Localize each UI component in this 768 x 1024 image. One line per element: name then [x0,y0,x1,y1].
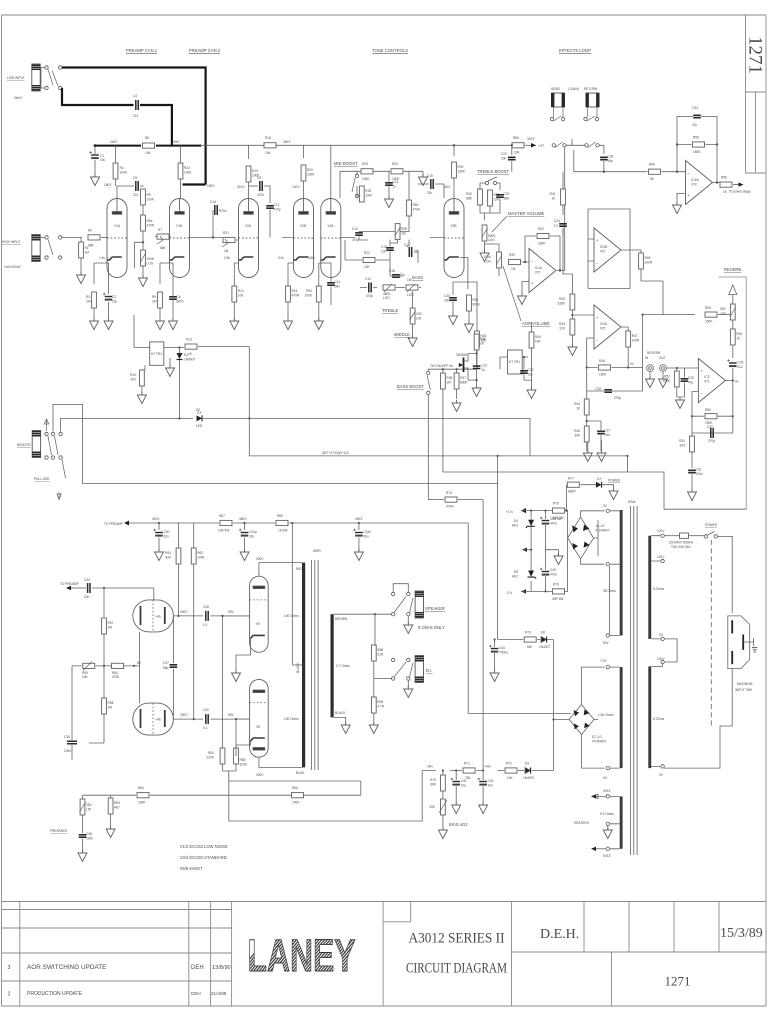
svg-text:LOG: LOG [407,293,414,297]
resistor R69 4R7 [371,697,376,713]
switch SW1a [45,66,48,69]
border left [1,15,3,1006]
capacitor C2 [107,263,109,294]
arrow 0V mid [522,548,527,552]
wire jack to switch [40,68,45,89]
capacitor C13 470p [369,283,371,293]
svg-text:10K: 10K [82,675,89,679]
wire IC2B surround [588,209,641,289]
svg-text:C33: C33 [692,106,698,110]
svg-text:D1: D1 [184,353,188,357]
svg-text:100K: 100K [307,173,315,177]
svg-text:55V: 55V [228,610,235,614]
resistor R74 470R [445,497,457,502]
resistor R76 40R 5W [553,589,565,594]
svg-text:R22: R22 [364,251,370,255]
svg-text:R60: R60 [413,203,419,207]
svg-text:20mV: 20mV [14,96,23,100]
svg-text:8 Ohms ONLY: 8 Ohms ONLY [418,625,445,630]
wire IC1A output up to effects loop [557,147,565,271]
svg-text:V6: V6 [256,725,260,729]
wire bias rail lower [229,771,422,822]
svg-text:C40: C40 [203,708,209,712]
svg-text:D5: D5 [514,570,518,574]
svg-text:SEND: SEND [551,87,561,91]
wire splitter outputs [173,616,249,719]
svg-text:R32: R32 [466,192,472,196]
pot 100K LOG [141,250,146,266]
svg-text:LOG: LOG [484,260,491,264]
capacitor C29 [727,359,736,367]
svg-text:22K: 22K [720,307,727,311]
svg-text:21/4/89: 21/4/89 [211,991,227,996]
speaker switch [392,592,395,595]
svg-text:600R: 600R [313,549,321,553]
svg-text:1M: 1M [108,706,113,710]
svg-text:V3B: V3B [451,224,457,228]
wire jack to grid network [40,236,82,238]
wire IC1B feedback loop [677,117,717,183]
svg-text:260V: 260V [283,140,291,144]
wire tap to lower stage [135,242,144,268]
svg-text:220K: 220K [240,763,248,767]
OT secondary bar [331,614,334,717]
relay HT TR2 [508,350,523,374]
capacitor C27 [597,431,605,433]
TITLE BLOCK [2,902,767,1007]
svg-text:OUT: OUT [659,356,666,360]
svg-text:C13: C13 [365,277,371,281]
wire +17v rail [521,511,568,529]
svg-text:22n: 22n [84,595,90,599]
capacitor C10 470p [355,233,363,235]
svg-text:071: 071 [704,380,710,384]
resistor R41 [561,189,566,205]
svg-text:072: 072 [600,327,606,331]
svg-text:D.I.: D.I. [426,668,433,673]
switch AOR contacts [45,432,48,435]
1271 cell left edge [611,952,613,1006]
svg-text:BROWN: BROWN [335,617,348,621]
ground below pot [142,266,144,277]
capacitor C42 [451,778,460,786]
svg-text:100R: 100R [645,261,653,265]
svg-text:R25: R25 [365,189,371,193]
D.E.H. row divider [512,951,767,953]
svg-text:4K7: 4K7 [114,806,120,810]
wire QET rail link up [248,418,250,456]
svg-text:220K: 220K [207,756,215,760]
svg-text:2K7: 2K7 [86,300,92,304]
DI switch [392,658,395,661]
svg-text:100K: 100K [292,801,300,805]
svg-text:R24: R24 [392,162,398,166]
notch cell [383,902,411,922]
jack SPEAKER [415,591,423,618]
resistor R44 [584,399,589,415]
svg-text:LIN: LIN [721,312,727,316]
svg-text:MIDDLE: MIDDLE [394,332,410,337]
svg-text:PRODUCTION UPDATE: PRODUCTION UPDATE [27,991,83,997]
svg-text:300V: 300V [256,557,264,561]
svg-text:BIAS ADJ.: BIAS ADJ. [449,822,469,827]
svg-text:100K: 100K [120,171,128,175]
svg-text:V1/2 ECC83 LOW NOISE: V1/2 ECC83 LOW NOISE [180,844,228,849]
svg-text:C30: C30 [444,294,450,298]
svg-text:180V: 180V [104,183,112,187]
svg-text:072: 072 [535,271,541,275]
svg-text:10K: 10K [514,151,521,155]
ground relay [169,358,171,367]
svg-text:22K: 22K [416,312,423,316]
svg-text:IC2A: IC2A [600,322,608,326]
wire bass pot to middle pot [396,288,421,309]
svg-text:120V: 120V [657,529,665,533]
wire HT rail power amp [129,522,468,524]
svg-text:4*1N4007: 4*1N4007 [592,740,606,744]
ground IC1A + input [522,282,529,296]
svg-text:10n: 10n [528,373,534,377]
svg-text:470p: 470p [366,294,373,298]
svg-text:R65: R65 [277,514,283,518]
svg-text:C43: C43 [488,779,494,783]
resistor R60 470K [408,171,410,200]
svg-text:R2: R2 [88,229,92,233]
LED D2 [197,415,203,421]
svg-text:1271: 1271 [745,36,766,74]
svg-text:R57: R57 [108,621,114,625]
svg-text:22K: 22K [494,198,501,202]
svg-text:V2A: V2A [245,224,252,228]
wire thick HT rail left [95,145,201,147]
svg-text:IC3: IC3 [704,375,709,379]
svg-text:1M: 1M [511,267,516,271]
resistor R22 10K [363,257,375,262]
svg-text:100n: 100n [86,837,93,841]
svg-text:100n: 100n [64,749,71,753]
wire secondary bottom to ground [334,717,346,724]
svg-text:+HT: +HT [538,144,544,148]
svg-text:1K5: 1K5 [679,444,685,448]
svg-text:R20: R20 [307,168,313,172]
svg-text:68K: 68K [88,244,95,248]
svg-text:47p: 47p [688,381,694,385]
switch contacts return row [552,144,555,147]
svg-text:22u: 22u [112,300,118,304]
svg-text:1M: 1M [85,251,90,255]
svg-text:TREBLE: TREBLE [382,308,398,313]
ground DI [407,681,409,689]
svg-text:3: 3 [8,965,11,971]
svg-text:400V: 400V [355,517,363,521]
svg-text:C41a: C41a [249,530,257,534]
svg-text:150K: 150K [705,320,713,324]
wire R7 to V1B grid [155,236,171,238]
wire AOR bottom rail [83,456,498,640]
resistor R1 [80,237,82,242]
transformer primary bar lower [648,666,651,768]
svg-text:DEH: DEH [191,991,201,996]
capacitor C26 [604,390,612,392]
wire R12 to V1B anode [180,145,182,198]
svg-text:v4a: v4a [156,615,161,619]
svg-text:470K: 470K [112,675,120,679]
resistor R5a [142,205,144,215]
svg-text:R68: R68 [377,648,383,652]
svg-text:R42: R42 [559,297,565,301]
svg-text:+17v: +17v [506,510,513,514]
capacitor C38 [82,815,84,833]
svg-text:0.1: 0.1 [203,726,208,730]
svg-text:15n: 15n [605,433,611,437]
ground under V5 [235,661,237,672]
svg-text:R61: R61 [165,551,171,555]
svg-text:150K: 150K [693,150,701,154]
SECTION LABELS [126,48,591,53]
svg-text:1N4007: 1N4007 [184,358,195,362]
svg-text:50V: 50V [603,641,610,645]
phono socket reverb IN [647,365,654,372]
resistor R55 on rail [512,143,524,148]
valve V1A [107,199,127,278]
svg-text:56p: 56p [607,159,613,163]
wire HT rail thin to right [201,144,512,146]
svg-text:R38: R38 [446,376,452,380]
capacitor C28 [600,157,608,159]
ground below C1 [91,174,100,186]
wire 470R row [428,499,483,501]
wire OT centre tap [292,523,302,665]
svg-text:LIN: LIN [416,317,422,321]
svg-text:C36: C36 [203,605,209,609]
capacitor C40 [206,714,208,724]
capacitor C11 [327,283,335,285]
terminals mid [606,665,609,668]
wire V3B cathode down [453,257,468,295]
svg-text:C22: C22 [501,152,507,156]
cathode V3A resistor R51 [319,257,321,286]
pot PRESENCE 22K [80,799,85,815]
capacitor C37 56p [170,665,178,667]
svg-text:R77: R77 [568,477,574,481]
arrow down AOR [57,492,61,500]
capacitor C48 470u [540,517,549,525]
svg-text:10K: 10K [145,151,152,155]
svg-text:R42: R42 [538,227,544,231]
svg-text:240V: 240V [110,140,118,144]
svg-text:270p: 270p [708,439,715,443]
svg-text:R26: R26 [401,227,407,231]
svg-text:R74: R74 [446,491,452,495]
jack SEND [551,93,565,107]
svg-text:1M: 1M [108,626,113,630]
svg-text:100 Ohms: 100 Ohms [284,717,299,721]
wire master pot wiper to AOR pot [485,244,500,276]
svg-text:R39: R39 [509,253,515,257]
capacitor C32 feedback [711,428,713,438]
resistor R31 820K [467,295,472,311]
wire thick lower branch [62,88,172,146]
svg-text:C4: C4 [133,94,137,98]
ground right of R24 [422,171,424,176]
resistor R12 anode load V1B [178,163,183,179]
svg-text:POWER: POWER [608,479,621,483]
svg-text:200V: 200V [180,713,188,717]
svg-text:BASS: BASS [412,275,423,280]
resistor R49 [649,169,661,174]
svg-text:120/240V 500mA: 120/240V 500mA [669,541,695,545]
wire R13 to V2A [248,182,250,199]
cathode network V1B [160,257,173,294]
pot reverb 22K LIN [730,304,735,320]
resistor R51b [691,433,693,436]
resistor R10 2K2 [142,365,145,370]
svg-text:MAXIMUM: MAXIMUM [737,682,753,686]
svg-text:470R: 470R [292,294,300,298]
wire loop bypass [567,139,604,154]
resistor R59 10K preset [83,663,95,668]
resistor R39 [509,259,521,264]
revision table lines [2,910,232,982]
svg-text:100K: 100K [184,171,192,175]
border top [2,14,767,16]
ground below R37 [452,400,461,412]
svg-text:REMOTE: REMOTE [17,443,31,447]
svg-text:R53: R53 [705,306,711,310]
wire bridge to transformer [581,511,605,564]
ground V2B cathode [284,318,293,330]
valve V4b (phase splitter) [133,703,174,735]
capacitor C25 [681,379,689,381]
resistor R46 [599,365,611,370]
ground below R43 [568,344,577,356]
pot BASS 1M LIN [406,285,418,290]
resistor R33 22K [488,190,493,206]
wire -17v rail [521,549,568,591]
wire zener column [530,511,532,592]
grounds V1B cathode [159,308,161,320]
resistor R37 680K [454,373,459,389]
resistor R24 [391,169,403,174]
resistor R53 [705,312,717,317]
svg-text:470u: 470u [550,522,557,526]
ground V2A cathode [230,318,239,330]
ground below middle pot [412,324,414,337]
resistor R72 10K [505,768,517,773]
wire R2 to V1A grid [101,236,107,238]
resistor R3 [92,292,97,308]
wire V2B grid feed [282,236,294,238]
svg-text:2N3819: 2N3819 [456,353,467,357]
svg-text:R45: R45 [574,429,580,433]
svg-text:10K: 10K [364,265,371,269]
valve V2A [239,199,259,278]
svg-text:360V: 360V [239,517,247,521]
transformer terminal circles left upper [606,509,609,512]
svg-text:LIN: LIN [86,808,92,812]
wire bass boost row [428,369,476,499]
svg-text:221: 221 [133,193,139,197]
svg-text:3V15: 3V15 [603,854,611,858]
resistor R40 [529,332,534,348]
svg-text:To power stage: To power stage [729,190,751,194]
svg-text:82K: 82K [165,556,172,560]
wire signal line to IC1B [574,171,686,173]
resistor R43 [570,319,575,335]
wire IC2A input [572,313,594,319]
svg-text:10u: 10u [461,784,467,788]
svg-text:60VA: 60VA [628,500,636,504]
svg-text:D4: D4 [514,519,518,523]
svg-text:R12: R12 [184,166,190,170]
ground below R52 [676,397,685,409]
svg-text:100K: 100K [197,556,205,560]
svg-text:V2B: V2B [300,224,306,228]
wire R4 to V1A anode [115,179,117,186]
svg-text:150K: 150K [458,170,466,174]
svg-text:0v: 0v [735,380,739,384]
valve V6 [250,679,269,757]
svg-text:39K: 39K [574,434,581,438]
svg-text:BASS BOOST: BASS BOOST [397,384,424,389]
svg-text:221: 221 [133,114,139,118]
cathode R3 V1A [94,257,107,284]
svg-text:2K7: 2K7 [152,300,158,304]
resistor R23 [361,169,373,174]
resistor R64 100K [137,793,149,798]
wires treble boost [480,183,500,190]
svg-text:C5: C5 [133,176,137,180]
resistor R55b feedback [693,142,705,147]
valve V5 [250,576,269,652]
capacitor C18 22n [392,275,400,277]
wire D1 column [179,348,181,419]
node HT rail start [94,144,97,147]
svg-text:100R: 100R [632,339,640,343]
wire feedback loop IC1A [525,236,560,271]
svg-text:MID BOOST: MID BOOST [334,161,358,166]
svg-text:R55: R55 [693,136,699,140]
svg-text:C21: C21 [482,364,488,368]
wire into IC1A inverting input [522,261,530,263]
svg-text:15/3/89: 15/3/89 [720,926,763,941]
svg-text:R44: R44 [574,402,580,406]
svg-text:C44: C44 [499,646,505,650]
switch mid boost [355,174,358,177]
LED POWER [596,482,602,488]
svg-text:470R: 470R [147,224,155,228]
wire V6 anode to OT [259,757,302,767]
pot AOR volume [497,252,502,268]
primary terminals [661,534,664,537]
svg-text:R3: R3 [86,295,90,299]
title block top edge [2,901,767,903]
svg-text:C20: C20 [504,192,510,196]
pot master volume 500K LOG [482,225,487,241]
svg-text:2u2: 2u2 [737,365,743,369]
svg-text:R52: R52 [664,375,670,379]
svg-text:R56: R56 [721,176,727,180]
svg-text:32u: 32u [249,535,255,539]
svg-text:C25: C25 [688,376,694,380]
svg-text:R6: R6 [145,136,149,140]
svg-text:TO PREAMP: TO PREAMP [60,582,79,586]
jack LOW INPUT [32,64,40,91]
resistor R21 grid stopper V2A [223,237,235,242]
svg-text:R76: R76 [553,582,559,586]
svg-text:TO PREAMP: TO PREAMP [104,522,123,526]
ground below C21 [472,385,481,397]
